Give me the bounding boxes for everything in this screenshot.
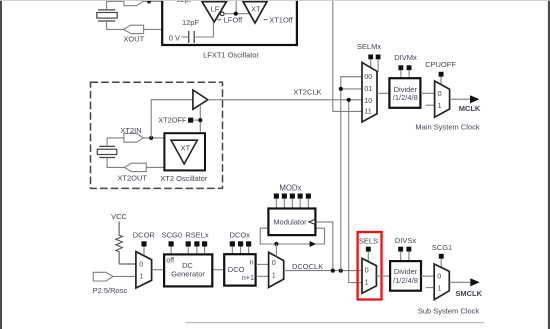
- marker modulator clock input: [309, 219, 315, 224]
- wire XOUT net: [107, 21, 163, 29]
- svg-text:DIVSx: DIVSx: [395, 236, 417, 245]
- wire divider to CPUOFF mux: [421, 92, 435, 94]
- svg-text:1: 1: [438, 101, 442, 110]
- mux DCO out: [269, 252, 284, 287]
- squares DIVMx controls: [398, 65, 411, 70]
- svg-text:0 V: 0 V: [169, 33, 180, 42]
- svg-text:SMCLK: SMCLK: [455, 289, 482, 298]
- pad XOUT: [124, 25, 144, 33]
- wire XT2CLK to SELS: [349, 100, 362, 283]
- square SCG0 control: [169, 241, 174, 246]
- junction modulator select: [274, 242, 278, 246]
- rule bottom: [186, 322, 484, 323]
- junction XT2IN: [149, 136, 153, 140]
- squares DIVSx controls: [398, 247, 411, 252]
- svg-text:0: 0: [139, 260, 143, 269]
- wire modulator input from DCOCLK: [317, 222, 333, 271]
- junction LF enable: [234, 12, 238, 16]
- pad XIN (cut at top): [124, 0, 143, 6]
- wire divider to SCG1 mux: [421, 275, 434, 277]
- pad XT2IN: [124, 134, 143, 143]
- arrowhead MCLK: [470, 95, 479, 103]
- wire 0V cap to LF: [182, 22, 214, 37]
- svg-text:SCG1: SCG1: [432, 243, 452, 252]
- svg-text:XT2OFF: XT2OFF: [158, 116, 187, 125]
- label XT1Off: [264, 15, 294, 24]
- svg-text:Generator: Generator: [171, 270, 205, 279]
- mux CPUOFF: [435, 81, 450, 117]
- mux SELMx: [362, 63, 377, 123]
- svg-text:0: 0: [437, 272, 441, 281]
- svg-text:11: 11: [364, 107, 371, 116]
- wire DC generator to DCO: [214, 269, 225, 271]
- wire SELS select: [367, 252, 369, 262]
- junction DCOCLK bus 01: [339, 87, 343, 91]
- wire LF enable: [224, 0, 250, 14]
- junction XT2CLK tap: [347, 98, 351, 102]
- wire SCG1 mux input 1 stub: [426, 287, 435, 289]
- wires RSELx selects: [188, 247, 204, 254]
- svg-text:XT: XT: [181, 144, 191, 153]
- junction DCOCLK to modulator: [331, 269, 335, 273]
- svg-text:DIVMx: DIVMx: [394, 53, 417, 62]
- wire modulator select to mux: [275, 244, 277, 257]
- mux SELS: [362, 258, 376, 293]
- square CPUOFF control: [439, 72, 444, 77]
- mux DCOR: [136, 252, 152, 288]
- buffer XT2CLK: [193, 90, 208, 109]
- wire MCLK out: [450, 98, 471, 100]
- svg-text:LFOff: LFOff: [224, 15, 244, 24]
- wires DCOx selects: [232, 247, 248, 255]
- svg-text:XT2OUT: XT2OUT: [117, 174, 147, 183]
- svg-text:XT1Off: XT1Off: [269, 15, 294, 24]
- svg-text:DCOR: DCOR: [133, 231, 156, 240]
- box DC generator: [164, 254, 212, 286]
- border right: [548, 0, 550, 329]
- square SCG1 control: [439, 254, 444, 259]
- wire XT2OFF: [193, 105, 200, 132]
- wire DCOCLK bus to mux 00/01: [341, 77, 362, 271]
- svg-text:/1/2/4/8: /1/2/4/8: [393, 276, 418, 285]
- svg-text:DCOx: DCOx: [229, 231, 250, 240]
- wire SELS to divider: [376, 275, 390, 277]
- svg-text:XT2 Oscillator: XT2 Oscillator: [160, 174, 208, 183]
- wire SCG1 select: [440, 259, 442, 268]
- wire SCG0 select: [170, 247, 172, 254]
- svg-text:LFXT1 Oscillator: LFXT1 Oscillator: [203, 51, 259, 60]
- box LFXT1 oscillator: [162, 0, 297, 45]
- wires MODx selects: [276, 199, 308, 209]
- svg-text:P2.5/Rosc: P2.5/Rosc: [93, 286, 128, 295]
- svg-text:Sub System Clock: Sub System Clock: [418, 306, 480, 315]
- wire XT2IN net: [107, 138, 164, 147]
- crystal XTAL1 (LFXT1): [97, 10, 117, 21]
- svg-text:n+1: n+1: [242, 273, 254, 282]
- svg-text:DCOCLK: DCOCLK: [292, 262, 323, 271]
- wire LFXT1CLK bus: [333, 0, 362, 111]
- squares RSELx controls: [186, 241, 208, 246]
- buffer LF: [202, 2, 227, 22]
- border left: [0, 0, 2, 329]
- svg-text:XT2CLK: XT2CLK: [293, 88, 321, 97]
- border top: [0, 0, 550, 2]
- wire mux to divider: [377, 92, 388, 94]
- svg-text:n: n: [250, 257, 254, 266]
- svg-text:XT2IN: XT2IN: [120, 126, 141, 135]
- dashed box XT2: [91, 82, 223, 188]
- wire VCC to mux input 0: [119, 263, 136, 265]
- svg-text:CPUOFF: CPUOFF: [425, 60, 456, 69]
- crystal XTAL2 (XT2): [97, 146, 117, 157]
- mux SCG1: [434, 264, 449, 300]
- wire CPUOFF mux input 1 stub: [426, 104, 435, 106]
- svg-text:Modulator: Modulator: [273, 217, 307, 226]
- svg-text:LF: LF: [211, 5, 220, 14]
- junction DCOCLK to MCLK mux: [339, 269, 343, 273]
- pad P2.5/Rosc: [93, 272, 113, 281]
- svg-text:Divider: Divider: [394, 267, 418, 276]
- junction on XIN wire: [147, 0, 151, 3]
- svg-text:SELMx: SELMx: [357, 42, 381, 51]
- svg-text:10: 10: [364, 96, 372, 105]
- box DCO: [224, 254, 255, 285]
- box divider MCLK: [389, 78, 420, 108]
- squares SELMx controls: [368, 55, 380, 60]
- arrowhead SMCLK: [470, 278, 479, 286]
- svg-text:MCLK: MCLK: [459, 104, 481, 113]
- wires DIVMx selects: [401, 70, 409, 78]
- wire XT2IN to buffer: [151, 100, 193, 138]
- svg-text:MODx: MODx: [279, 184, 301, 193]
- wire P2.5 to mux input 1: [113, 275, 136, 277]
- junction XT2OFF: [198, 118, 202, 122]
- pad XT2OUT: [124, 163, 146, 171]
- svg-text:1: 1: [365, 277, 369, 286]
- square SELS control: [366, 247, 371, 252]
- wire XT2CLK: [208, 99, 362, 101]
- squares MODx controls: [274, 194, 311, 199]
- triangle XT2 core: [171, 140, 197, 164]
- square DCOR control: [141, 241, 146, 246]
- svg-text:RSELx: RSELx: [185, 231, 209, 240]
- svg-text:0: 0: [365, 265, 369, 274]
- svg-text:1: 1: [139, 272, 143, 281]
- svg-text:0: 0: [272, 258, 276, 267]
- svg-text:XT: XT: [251, 4, 261, 13]
- resistor Rosc pullup: [116, 222, 123, 265]
- box modulator: [268, 209, 315, 236]
- svg-text:0: 0: [438, 89, 442, 98]
- wire DCO n+1 out: [256, 275, 269, 277]
- svg-text:1: 1: [272, 270, 276, 279]
- wire DCO n out: [256, 263, 269, 265]
- square XT2OFF control: [188, 118, 193, 123]
- svg-text:12pF: 12pF: [182, 18, 200, 27]
- wires DIVSx selects: [401, 252, 409, 262]
- box divider SMCLK: [390, 261, 421, 291]
- capacitor 12pF (0V): [189, 31, 195, 43]
- wires SELMx selects: [371, 59, 378, 72]
- svg-text:Main System Clock: Main System Clock: [415, 122, 479, 131]
- box XT2 oscillator core: [164, 133, 205, 170]
- svg-text:01: 01: [364, 84, 372, 93]
- svg-text:00: 00: [364, 72, 372, 81]
- svg-text:VCC: VCC: [111, 212, 127, 221]
- wire XT2OUT net: [107, 158, 164, 168]
- svg-text:SCG0: SCG0: [162, 231, 182, 240]
- wire XIN net: [107, 1, 163, 10]
- svg-text:off: off: [166, 257, 174, 264]
- buffer XT1: [243, 2, 267, 23]
- wire modulator output loop: [260, 228, 324, 244]
- svg-text:1: 1: [437, 283, 441, 292]
- wire DCOCLK: [284, 270, 362, 272]
- svg-text:SELS: SELS: [359, 236, 378, 245]
- label LFOff: [217, 15, 243, 24]
- highlight red box SELS: [358, 232, 382, 300]
- wire CPUOFF select: [440, 77, 442, 85]
- squares DCOx controls: [230, 241, 252, 246]
- wire DCOR mux to DC generator: [152, 269, 164, 271]
- wire DCOR select: [143, 247, 145, 257]
- svg-text:/1/2/4/8: /1/2/4/8: [393, 93, 418, 102]
- svg-text:XOUT: XOUT: [123, 35, 144, 44]
- arrowhead modulator loop: [310, 241, 316, 247]
- wire SMCLK out: [449, 281, 471, 283]
